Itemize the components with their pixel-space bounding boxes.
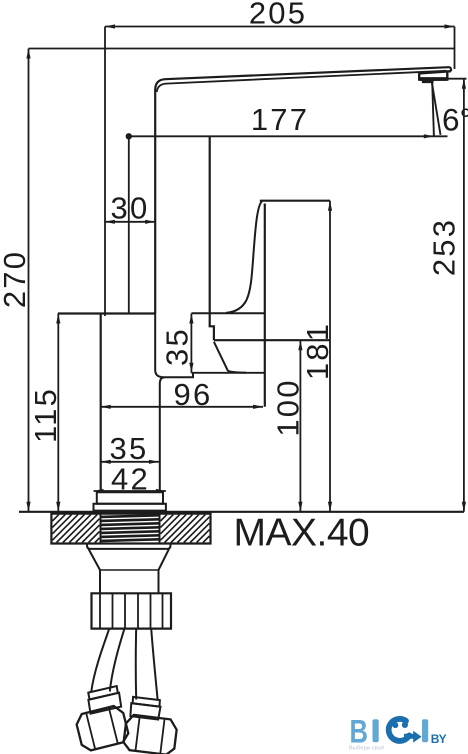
svg-text:181: 181 — [300, 322, 335, 380]
svg-text:BY: BY — [431, 732, 447, 746]
svg-text:MAX.40: MAX.40 — [234, 512, 370, 555]
svg-text:6°: 6° — [442, 102, 468, 138]
svg-text:Выбери своё: Выбери своё — [349, 746, 384, 752]
svg-text:35: 35 — [160, 327, 195, 366]
svg-text:96: 96 — [174, 377, 213, 412]
svg-text:253: 253 — [427, 218, 462, 276]
svg-text:177: 177 — [251, 102, 309, 137]
svg-text:270: 270 — [0, 250, 32, 308]
svg-text:42: 42 — [111, 462, 150, 497]
svg-text:100: 100 — [271, 378, 306, 436]
svg-text:115: 115 — [28, 387, 63, 443]
svg-text:30: 30 — [111, 191, 150, 226]
svg-text:205: 205 — [249, 0, 307, 31]
